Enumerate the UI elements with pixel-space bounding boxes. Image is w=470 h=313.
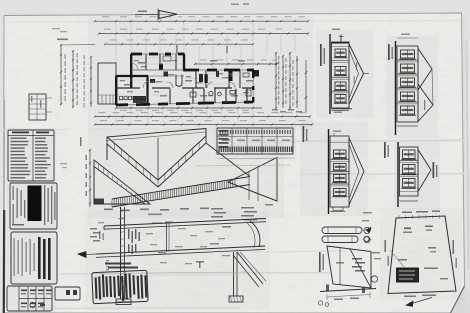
tank 2 [322,236,358,243]
floor plan bottom dimension line 1 [116,107,262,109]
outbuilding elevation [327,246,371,288]
right edge outer shadow [467,40,469,270]
redacted name bar [28,186,42,222]
elevation rear roof [349,44,364,105]
tank small circle [364,236,369,241]
roof plan butterfly valley [107,136,206,180]
elevation side2 (mid right) ground line [397,142,399,207]
roof left lower triangle [94,160,150,204]
floor plan right dimension stack [275,53,277,108]
top header marks [231,4,239,6]
section post 2 [233,252,235,296]
elevation side label [388,44,390,60]
floor plan left dimension stack [60,45,62,105]
section right curve brace [250,221,260,247]
north arrow [135,13,158,15]
elevation side2 base [400,200,419,202]
faint interior room lines [118,79,146,81]
dimension line above right wing [195,63,277,65]
roof vent ticks above plan [176,45,178,54]
section beam 1 [104,219,266,227]
outbuilding dims below [327,295,370,298]
elevation rear (top right) ground line [329,34,331,114]
elevation front labels [303,126,305,142]
title block info grid [7,286,52,311]
floor plan exterior walls [131,53,142,56]
elevation rear label [320,44,322,66]
witness lines from top dims to plan [115,23,117,63]
elevation side top dim [397,37,418,39]
client box rotated text [13,186,14,200]
trees [364,228,370,234]
notes table [8,130,54,181]
site plan path line [390,250,404,267]
section extra smudges [146,233,153,234]
title block firm box bob page drafting [11,232,57,284]
elevation front base steps [333,207,343,211]
elevation side roof [418,49,432,91]
site plan labels [402,212,412,214]
room label smudges [138,62,145,64]
outbuilding label rotated [319,252,321,272]
spec note box A [92,270,148,303]
scan bloom washes [88,16,313,130]
floor plan interior walls [146,76,148,104]
site small pair bottom [318,301,322,305]
elevation side facade [397,46,418,122]
stray label left mid [60,163,67,164]
elevation side base [397,125,418,127]
elevation front facade [330,136,349,207]
floor plan fixtures [176,75,182,87]
title block client box [10,183,57,229]
firm box small rotated text [14,238,15,276]
elevation side (top right) ground line [395,41,397,135]
elevation side2 roof [418,150,431,192]
floor plan bottom dimension line 2 [95,116,310,118]
door swing arcs [143,81,150,88]
elevation rear facade [332,42,350,108]
site plan boundary [388,216,456,294]
section beam 2 [96,246,265,254]
section text labels [128,229,129,239]
tank 1 [322,227,362,234]
roof plan top chords [107,129,206,138]
section marker arrow [78,252,86,258]
flue detail [29,94,46,120]
extra plan clutter marks [120,80,125,81]
roof label smudges [104,209,113,211]
floor plan top dimension line 3 [105,43,253,45]
floor plan deck (left wing) [98,63,116,104]
section mid post [166,222,168,252]
schedule table [217,128,293,154]
roof hatched band [112,177,250,200]
section post 1 [120,207,122,299]
elevation front top marks [333,131,341,132]
floor plan bottom dimension line 3 [95,124,312,126]
floor plan top dimension line 2 [99,33,308,35]
elevation rear base marks [332,110,350,112]
left edge dark scan line [3,210,6,313]
elevation side2 facade [400,147,419,196]
boundary tick marks [398,215,400,218]
elevation rear vent [340,35,342,43]
tank arrow [366,228,371,233]
text rows above note box [105,263,131,265]
roof dim line left [89,150,91,207]
elevation side2 label [433,162,435,178]
north arrow site [410,298,432,305]
roof right plane [206,143,250,177]
roof valley hatch [106,137,108,144]
left small ticks near beams [90,228,97,229]
outbuilding base [320,289,376,292]
scanner streak bands [240,141,464,142]
small mark right of boxes [199,262,201,268]
firm name rotated bold text [38,237,41,279]
elevation front roof [349,138,364,205]
house footprint [397,268,419,282]
curled corner shadow bottom right [451,286,470,313]
sheet number box [55,287,80,300]
floor plan top dimension line 1 [95,20,308,22]
section diagonal strut [237,252,263,284]
elevation front (mid right) ground line [328,129,330,214]
witness lines below plan [115,106,117,123]
